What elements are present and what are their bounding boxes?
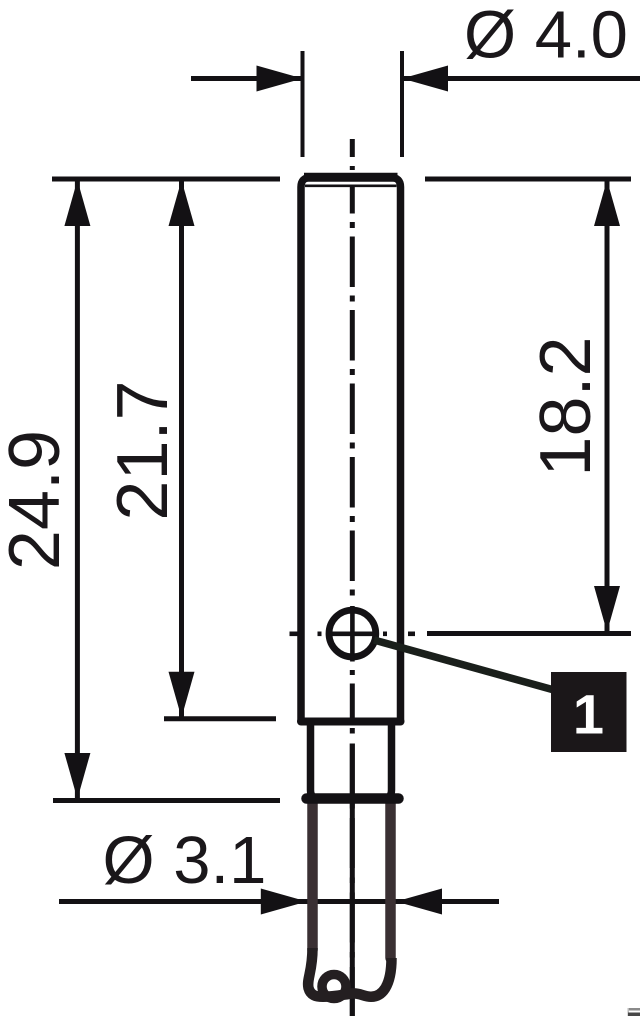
svg-text:Ø 4.0: Ø 4.0	[464, 0, 628, 73]
svg-text:Ø 3.1: Ø 3.1	[103, 823, 267, 898]
svg-text:1: 1	[573, 683, 604, 746]
svg-text:18.2: 18.2	[526, 336, 606, 476]
svg-text:21.7: 21.7	[103, 380, 183, 520]
svg-text:24.9: 24.9	[0, 430, 75, 570]
